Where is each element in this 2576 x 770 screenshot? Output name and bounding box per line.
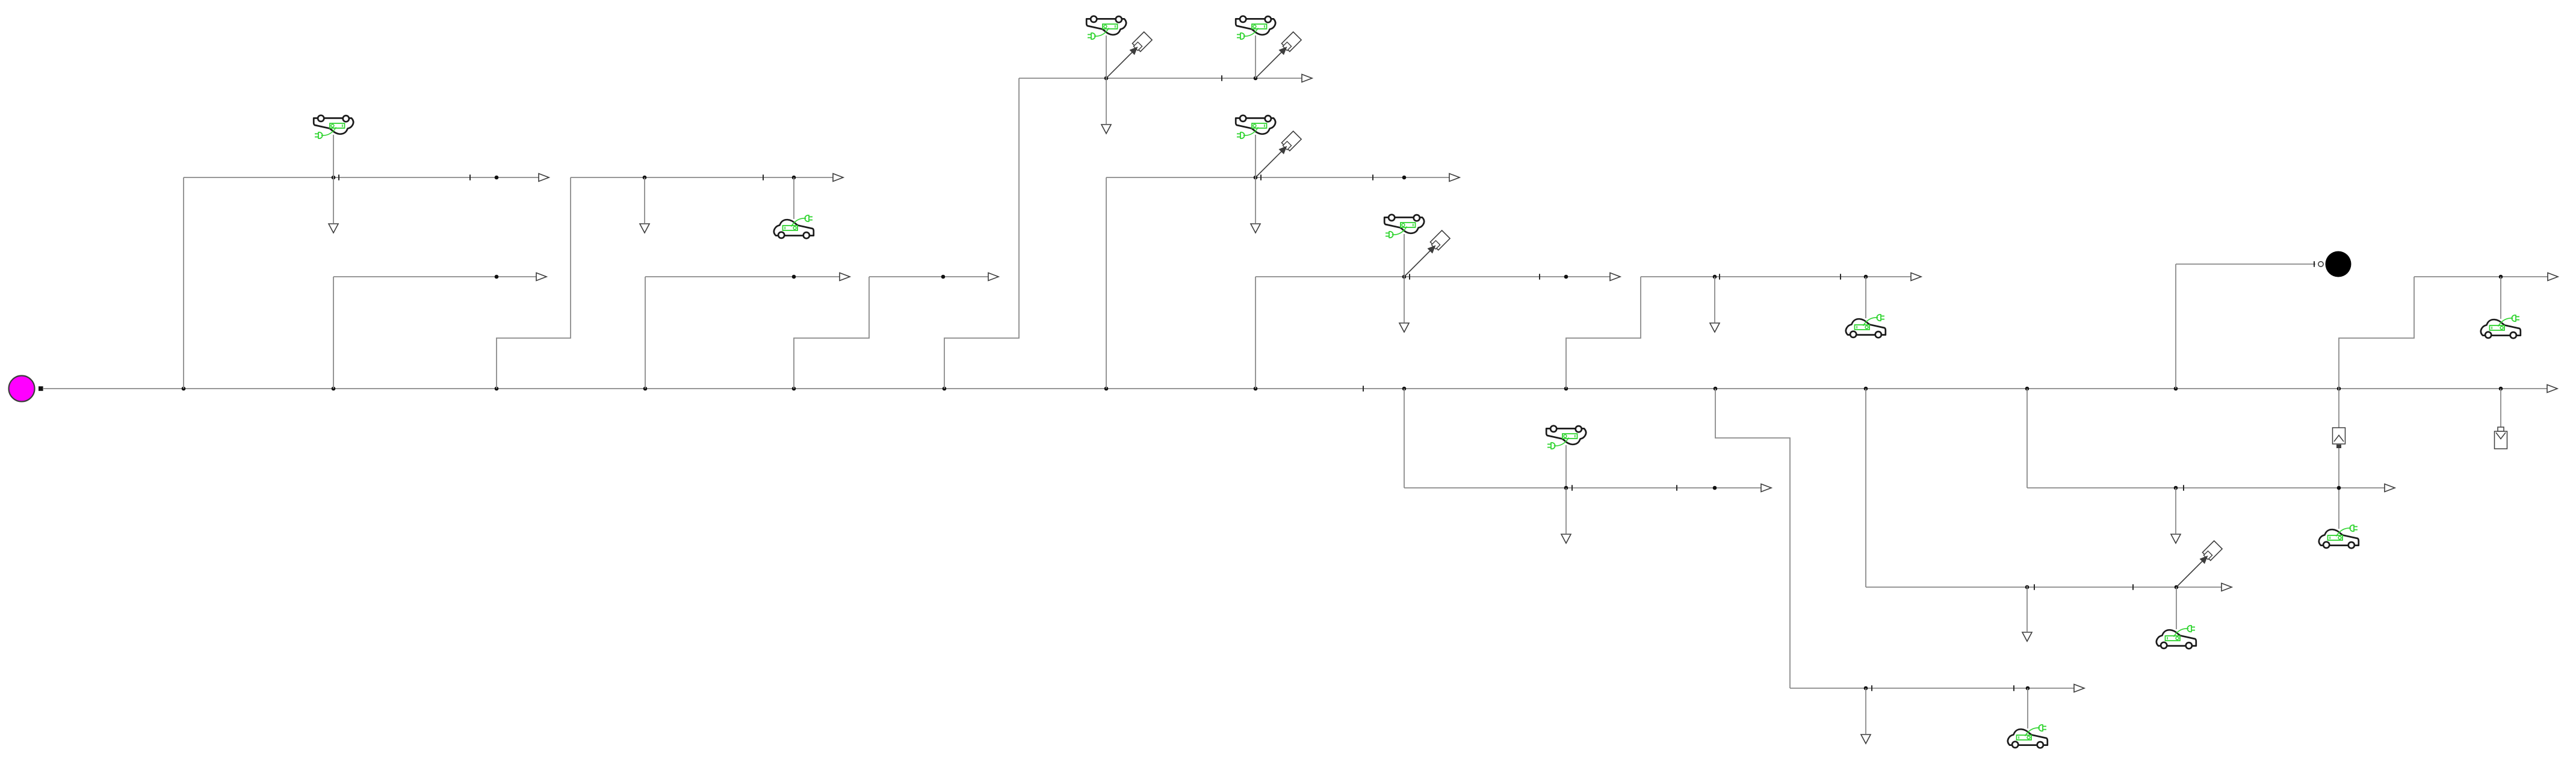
bus node (3886,811)	[2337, 486, 2341, 490]
feeder F3 end arrow	[833, 174, 843, 182]
load arrow at (2086,295)	[1251, 177, 1260, 233]
EV charging car icon (flipped) at (2086,224)	[1236, 115, 1275, 139]
drop line x=3886 to storage	[2338, 389, 2339, 428]
feeder line F8 y=1144	[1790, 688, 2074, 689]
external grid source (magenta circle)	[9, 376, 35, 402]
bus node (2333,460)	[1402, 275, 1407, 279]
feeder F2b end arrow	[988, 273, 999, 281]
riser line x=2086	[1255, 277, 1256, 389]
bus node (3100,460)	[1864, 275, 1868, 279]
feeder line F10 y=811	[2027, 487, 2385, 488]
switch tick F9 at 3380	[2034, 584, 2035, 590]
bus node (2086,646)	[1254, 387, 1258, 391]
bus node (2602,646)	[1564, 387, 1568, 391]
EV charging car icon at (1319,364)	[774, 215, 814, 239]
sgen diamond at (2086,295)	[1255, 131, 1301, 177]
feeder F9 end arrow	[2221, 584, 2232, 591]
bus node (3368,646)	[2025, 387, 2030, 391]
bus node (825,646)	[495, 387, 499, 391]
bus node (1071,295)	[643, 176, 647, 180]
EV charging car icon at (4155,530)	[2481, 315, 2521, 339]
EV charging car icon (flipped) at (2333,389)	[1384, 215, 1424, 238]
feeder F2c end arrow	[840, 273, 850, 281]
bus node (3100,646)	[1864, 387, 1868, 391]
stair riser x=3886 up	[2339, 277, 2414, 389]
feeder F7 end arrow	[1761, 484, 1771, 492]
switch tick F9 at 3544	[2132, 584, 2134, 590]
line x=3886 storage to car	[2338, 448, 2339, 529]
EV charging car icon at (3369,1211)	[2008, 725, 2048, 748]
bus node (2850,646)	[1714, 387, 1718, 391]
sgen diamond at (2086,130)	[1255, 32, 1301, 78]
bus node (2849,460)	[1713, 275, 1717, 279]
switch tick at 3845 y=439	[2314, 261, 2315, 267]
bus node (4155,460)	[2499, 275, 2503, 279]
feeder line F9 y=974	[1866, 587, 2221, 588]
bus node (3100,1144)	[1864, 686, 1868, 691]
feeder line F2 y=460	[333, 276, 536, 277]
load arrow at (3615,811)	[2171, 488, 2181, 543]
stub line to car (4155)	[2500, 277, 2501, 319]
sgen diamond at (3616,976)	[2176, 541, 2222, 587]
switch tick F7 at 2612	[1571, 485, 1573, 491]
EV charging car icon (flipped) at (2086,59)	[1236, 16, 1275, 39]
bus node (3369,1144)	[2026, 686, 2030, 691]
feeder line F4 y=295	[1106, 177, 1449, 178]
bus node (3886,646)	[2337, 387, 2341, 391]
line to black grid circle y=439	[2176, 263, 2315, 265]
switch tick F1 at 781	[469, 174, 471, 180]
feeder line F5 y=460	[1255, 276, 1610, 277]
switch tick F4 at 2095	[1260, 174, 1262, 180]
feeder line F11 y=460	[2414, 276, 2548, 277]
riser line x=3615 to grid circle	[2175, 264, 2176, 389]
stair riser x=1569	[944, 78, 1019, 389]
bus node (825,295)	[495, 176, 499, 180]
switch tick F5 at 2342	[1409, 274, 1410, 280]
EV charging car icon (flipped) at (1838,59)	[1086, 16, 1126, 39]
feeder F5 end arrow	[1610, 273, 1620, 281]
feeder line FTop y=130	[1019, 78, 1302, 79]
drop line x=3100	[1865, 389, 1866, 587]
stair riser x=2602 up	[1566, 277, 1641, 389]
feeder F8 end arrow	[2074, 685, 2084, 692]
bus node (3615,646)	[2174, 387, 2178, 391]
drop line x=4155 to storage	[2500, 389, 2501, 428]
stub line to car (3369)	[2027, 688, 2028, 728]
black grid circle (3883,439)	[2326, 251, 2352, 277]
riser line x=554	[333, 277, 334, 389]
switch tick FTop at 2030	[1221, 75, 1222, 81]
switch tick F5 at 2558	[1539, 274, 1540, 280]
switch tick F7 at 2776	[1676, 485, 1677, 491]
switch tick F4 at 2281	[1372, 174, 1373, 180]
feeder F11 end arrow	[2548, 273, 2558, 281]
bus node (2602,460)	[1564, 275, 1568, 279]
sgen diamond at (1838,130)	[1106, 32, 1152, 78]
bus node (1319,460)	[792, 275, 796, 279]
feeder F2 end arrow	[536, 273, 546, 281]
switch tick F8 at 3346	[2013, 685, 2014, 691]
slack bus node (black square)	[39, 386, 43, 391]
bus node (2602,811)	[1564, 486, 1568, 490]
switch tick F8 at 3110	[1871, 685, 1872, 691]
bus node (554,646)	[332, 387, 336, 391]
feeder F1 end arrow	[539, 174, 549, 182]
switch tick F6 at 2857	[1719, 274, 1720, 280]
main trunk end arrow	[2547, 385, 2557, 393]
switch tick on main trunk	[1363, 386, 1364, 392]
bus node (2849,811)	[1713, 486, 1717, 490]
load arrow at (2602,811)	[1561, 488, 1571, 543]
bus node (305,646)	[182, 387, 186, 391]
bus node (1319,646)	[792, 387, 796, 391]
switch tick F1 at 563	[338, 174, 339, 180]
feeder F4 end arrow	[1449, 174, 1460, 182]
load arrow at (2333,460)	[1399, 277, 1409, 332]
drop line x=3368	[2026, 389, 2028, 488]
stub line to car (2086 mid)	[1255, 135, 1256, 177]
bus node (2333,646)	[1402, 387, 1407, 391]
stub line to car (3616 low)	[2176, 587, 2177, 629]
load arrow at (554,295)	[329, 177, 338, 233]
storage symbol at (4155,711)	[2495, 427, 2507, 449]
feeder line F6 y=460	[1641, 276, 1911, 277]
stub line to car (1838 top)	[1106, 35, 1107, 78]
stub line to car (2086 top)	[1255, 35, 1256, 78]
bus node (1072,646)	[643, 387, 648, 391]
stub line to car (3100)	[1865, 277, 1866, 318]
bus node (2086,295)	[1254, 176, 1258, 180]
EV charging car icon at (3616,1046)	[2156, 626, 2196, 649]
stub line to car (1319)	[793, 177, 794, 219]
bus node (1567,460)	[941, 275, 946, 279]
feeder line F1 y=295	[184, 177, 539, 178]
bus node (1569,646)	[943, 387, 947, 391]
bus node (825,460)	[495, 275, 499, 279]
riser line x=1072	[645, 277, 646, 389]
bus node (3615,811)	[2174, 486, 2178, 490]
sgen diamond at (2333,460)	[1404, 230, 1450, 277]
load arrow at (1071,295)	[640, 177, 649, 233]
main feeder trunk line	[43, 388, 2547, 389]
feeder F6 end arrow	[1911, 273, 1921, 281]
feeder line F3 y=295	[571, 177, 833, 178]
bus node (3368,974)	[2025, 585, 2030, 590]
bus node (2086,130)	[1254, 76, 1258, 81]
EV charging car icon at (3886,879)	[2319, 525, 2359, 549]
bus node (4155,646)	[2499, 387, 2503, 391]
stair drop x=2850	[1715, 389, 1790, 688]
storage symbol at (3886,711)	[2333, 428, 2345, 448]
switch tick F3 at 1268	[763, 174, 764, 180]
feeder F10 end arrow	[2385, 484, 2395, 492]
load arrow at (1838,130)	[1101, 78, 1111, 134]
drop line x=2333 to lower feeder	[1404, 389, 1405, 488]
bus node (1838,130)	[1104, 76, 1109, 81]
riser line x=305	[183, 177, 184, 389]
load arrow at (3368,974)	[2022, 586, 2032, 641]
bus node (1838,646)	[1104, 387, 1109, 391]
stair riser x=1319	[794, 277, 869, 389]
bus node (1319,295)	[792, 176, 796, 180]
EV charging car icon at (3100,529)	[1846, 315, 1886, 338]
switch tick F6 at 3058	[1840, 274, 1841, 280]
stub line to car (2333)	[1404, 234, 1405, 277]
drop line x=2602 car to lower feeder	[1565, 445, 1567, 488]
feeder line F7 y=811	[1404, 487, 1761, 488]
load arrow at (3100,1144)	[1861, 688, 1871, 744]
feeder line F2b y=460	[869, 276, 988, 277]
feeder FTop end arrow	[1302, 75, 1312, 82]
stub line to car (554)	[333, 135, 334, 177]
bus node (2333,295)	[1402, 176, 1407, 180]
feeder line F2c y=460	[645, 276, 840, 277]
EV charging car icon (flipped) at (554,224)	[314, 115, 353, 139]
open switch circle (3855,439)	[2318, 262, 2323, 266]
bus node (554,295)	[332, 176, 336, 180]
EV charging car icon (flipped) at (2602,740)	[1546, 426, 1586, 449]
load arrow at (2849,460)	[1710, 277, 1720, 332]
stair riser x=825	[497, 177, 571, 389]
bus node (3616,976)	[2175, 585, 2179, 590]
riser line x=1838	[1106, 177, 1107, 389]
switch tick F10 at 3628	[2183, 485, 2184, 491]
